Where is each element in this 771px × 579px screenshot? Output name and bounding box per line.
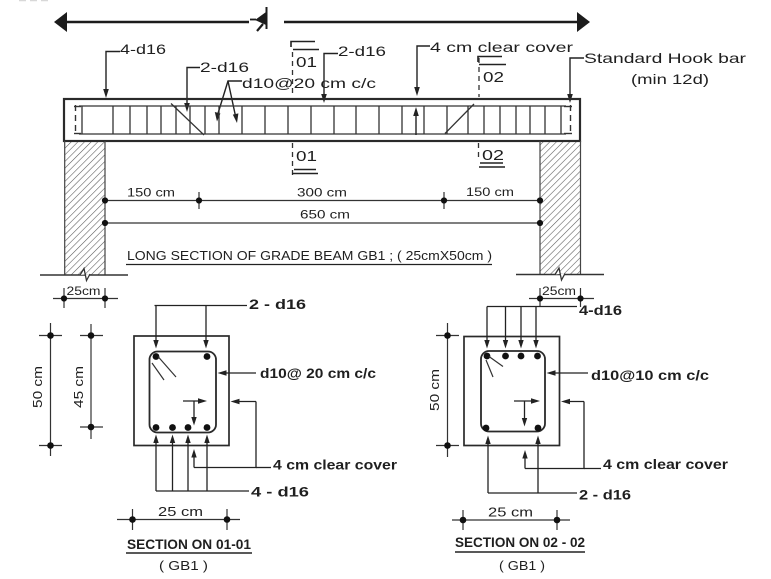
dimension line 150/300/150 [102, 185, 543, 209]
svg-text:650 cm: 650 cm [300, 208, 350, 222]
right ground line [516, 274, 604, 276]
left column 25cm dimension [53, 286, 118, 308]
svg-text:45 cm: 45 cm [72, 366, 86, 408]
left column break mark [80, 269, 90, 281]
dimension line 650 cm [102, 208, 543, 227]
label 2-d16 left [184, 60, 249, 112]
left hook bar dashed [74, 105, 81, 135]
section2 title [455, 535, 585, 573]
label Standard Hook bar (min 12d) [567, 50, 746, 103]
section1 25 cm dimension [117, 505, 240, 530]
faint scan remnant top edge [19, 0, 52, 2]
svg-text:2-d16: 2-d16 [200, 60, 249, 75]
label 4 cm clear cover top [414, 39, 573, 96]
center break glyph on span arrow [250, 7, 267, 31]
svg-text:150 cm: 150 cm [127, 186, 175, 200]
svg-text:01: 01 [296, 55, 317, 71]
section1 outer concrete outline [134, 336, 229, 446]
section1 right cover arrow [231, 399, 257, 404]
section mark 01 bottom [292, 143, 318, 175]
svg-text:d10@10 cm c/c: d10@10 cm c/c [591, 367, 709, 383]
grade beam outline [64, 99, 580, 141]
label 4 cm clear cover (section1) [191, 402, 397, 473]
beam bottom rebar line [79, 133, 566, 135]
section1 inner cover arrows [183, 398, 207, 425]
section2 stirrup [481, 351, 545, 432]
svg-text:4 cm clear cover: 4 cm clear cover [603, 456, 729, 472]
svg-text:( GB1 ): ( GB1 ) [499, 558, 545, 573]
svg-text:01: 01 [296, 149, 317, 165]
beam break diagonal right [445, 104, 474, 134]
left ground line [40, 274, 128, 276]
svg-text:25 cm: 25 cm [158, 505, 203, 519]
svg-text:300 cm: 300 cm [297, 186, 347, 200]
svg-text:25 cm: 25 cm [488, 506, 533, 520]
label 2 - d16 (section1 top) [153, 296, 306, 349]
section1 45 cm dimension [72, 324, 103, 439]
section2 outer concrete outline [464, 337, 560, 446]
section1 top bars [153, 353, 160, 360]
beam break diagonal left [171, 104, 204, 136]
right column hatched [540, 141, 581, 275]
label d10@ 20 cm c/c (section1) [218, 365, 377, 381]
left column hatched [65, 141, 105, 275]
svg-text:4 cm clear cover: 4 cm clear cover [273, 457, 398, 473]
svg-text:2 - d16: 2 - d16 [249, 296, 306, 312]
svg-text:d10@ 20 cm c/c: d10@ 20 cm c/c [260, 365, 376, 381]
svg-text:d10@20 cm c/c: d10@20 cm c/c [242, 75, 376, 91]
beam top rebar line [79, 105, 566, 107]
label d10@10 cm c/c (section2) [547, 367, 710, 383]
svg-text:50 cm: 50 cm [428, 369, 442, 411]
section2 right cover arrow [561, 399, 584, 404]
label 4 cm clear cover (section2) [522, 402, 728, 473]
svg-text:4-d16: 4-d16 [120, 42, 166, 57]
svg-text:25cm: 25cm [542, 286, 576, 298]
svg-text:Standard Hook bar: Standard Hook bar [584, 50, 746, 66]
section2 bar cut marks [486, 357, 503, 378]
svg-text:150 cm: 150 cm [466, 185, 514, 199]
section1 bar cut marks [152, 357, 176, 381]
section1 stirrup [150, 352, 217, 433]
overall span dimension arrow [54, 12, 590, 32]
label 4 - d16 (section1 bottom) [153, 435, 309, 500]
section2 top bars [484, 353, 541, 360]
section mark 02 top [478, 57, 506, 98]
svg-text:50 cm: 50 cm [31, 366, 45, 408]
section2 25 cm dimension [452, 506, 570, 531]
svg-text:02: 02 [483, 70, 504, 86]
label 4-d16 (section2 top) [484, 303, 622, 349]
label d10@20 cm c/c [215, 75, 376, 123]
section1 title [126, 537, 252, 573]
svg-text:2 - d16: 2 - d16 [579, 487, 631, 503]
section1 50 cm dimension [31, 323, 62, 456]
svg-text:02: 02 [482, 148, 504, 164]
right hook bar dashed [564, 105, 572, 135]
section2 bottom bars [483, 425, 542, 432]
svg-text:SECTION ON 01-01: SECTION ON 01-01 [127, 537, 251, 552]
svg-text:25cm: 25cm [67, 286, 101, 298]
label 2 - d16 (section2 bottom) [485, 436, 631, 503]
svg-text:4 - d16: 4 - d16 [251, 484, 309, 500]
section mark 02 bottom [479, 143, 506, 167]
svg-text:2-d16: 2-d16 [338, 44, 386, 59]
svg-text:4 cm clear cover: 4 cm clear cover [430, 39, 573, 55]
svg-text:( GB1 ): ( GB1 ) [159, 558, 208, 573]
section2 inner cover arrows [514, 398, 540, 426]
title LONG SECTION [126, 248, 492, 265]
clear cover up arrow in beam [413, 107, 419, 135]
right column break mark [555, 268, 565, 280]
section1 bottom bars [153, 424, 211, 431]
label 2-d16 right [321, 44, 386, 103]
svg-text:(min 12d): (min 12d) [631, 71, 709, 87]
svg-text:SECTION ON 02 - 02: SECTION ON 02 - 02 [455, 535, 585, 550]
svg-text:LONG SECTION OF GRADE BEAM GB1: LONG SECTION OF GRADE BEAM GB1 ; ( 25cmX… [127, 248, 492, 263]
stirrups [82, 106, 561, 134]
svg-text:4-d16: 4-d16 [579, 303, 623, 318]
section2 50 cm dimension [428, 323, 459, 457]
label 4-d16 [103, 42, 166, 98]
right column 25cm dimension [529, 286, 594, 307]
section mark 01 top [291, 42, 319, 98]
